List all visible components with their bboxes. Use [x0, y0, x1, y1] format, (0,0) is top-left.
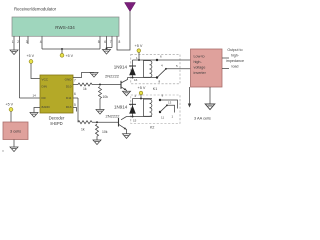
- svg-text:high-: high-: [231, 53, 240, 57]
- svg-text:Receiver/demodulator: Receiver/demodulator: [14, 7, 57, 12]
- svg-text:1N914: 1N914: [114, 64, 128, 69]
- svg-text:5: 5: [74, 103, 76, 107]
- svg-text:VCC: VCC: [42, 78, 49, 82]
- svg-text:5: 5: [176, 64, 178, 68]
- svg-text:1: 1: [12, 40, 14, 44]
- svg-text:GND: GND: [65, 78, 73, 82]
- svg-text:8: 8: [119, 40, 121, 44]
- svg-text:9: 9: [162, 94, 164, 98]
- svg-text:13: 13: [168, 101, 172, 105]
- svg-text:K1: K1: [153, 87, 157, 91]
- svg-text:+5 V: +5 V: [27, 54, 35, 58]
- svg-text:6: 6: [104, 40, 106, 44]
- svg-text:4: 4: [161, 63, 163, 67]
- svg-text:16: 16: [134, 78, 138, 82]
- svg-text:high-: high-: [194, 60, 203, 64]
- svg-text:Low-to: Low-to: [194, 54, 205, 58]
- svg-text:8-BPD: 8-BPD: [50, 121, 62, 126]
- svg-text:5: 5: [98, 40, 100, 44]
- svg-text:D10: D10: [66, 85, 72, 89]
- svg-text:11: 11: [161, 116, 164, 120]
- svg-text:3: 3: [26, 40, 28, 44]
- svg-text:3 AA cells: 3 AA cells: [194, 115, 211, 120]
- svg-text:+5 V: +5 V: [66, 54, 74, 58]
- svg-text:K2: K2: [150, 126, 154, 130]
- svg-text:1: 1: [172, 115, 174, 119]
- svg-text:+5 V: +5 V: [6, 102, 14, 106]
- svg-text:1k: 1k: [81, 127, 85, 131]
- svg-text:2N2222: 2N2222: [105, 73, 120, 78]
- svg-text:10k: 10k: [102, 130, 108, 134]
- svg-text:10k: 10k: [103, 95, 109, 99]
- svg-text:8: 8: [159, 80, 161, 84]
- svg-text:+5 V: +5 V: [138, 86, 146, 90]
- svg-text:3 cells: 3 cells: [10, 129, 21, 134]
- svg-text:load: load: [232, 64, 239, 68]
- svg-text:Decoder: Decoder: [49, 115, 65, 120]
- svg-text:1: 1: [136, 56, 138, 60]
- svg-text:DIN: DIN: [42, 85, 47, 89]
- svg-text:2: 2: [17, 40, 19, 44]
- svg-text:D11: D11: [66, 96, 72, 100]
- svg-text:7: 7: [110, 40, 112, 44]
- svg-text:7: 7: [74, 79, 76, 83]
- svg-text:impedance: impedance: [226, 59, 244, 63]
- svg-text:D13: D13: [66, 105, 72, 109]
- svg-text:6: 6: [74, 92, 76, 96]
- svg-text:15: 15: [133, 118, 137, 122]
- svg-text:6: 6: [160, 55, 162, 59]
- svg-text:4: 4: [40, 40, 42, 44]
- svg-text:1N914: 1N914: [114, 104, 128, 109]
- svg-text:14: 14: [33, 94, 37, 98]
- svg-text:2N2222: 2N2222: [106, 113, 121, 118]
- svg-text:1k: 1k: [83, 87, 87, 91]
- svg-text:2: 2: [135, 94, 137, 98]
- svg-text:voltage: voltage: [194, 65, 206, 69]
- svg-text:8ADD: 8ADD: [42, 105, 51, 109]
- svg-text:inverter: inverter: [194, 71, 207, 75]
- svg-text:D0: D0: [42, 96, 46, 100]
- svg-text:+5 V: +5 V: [135, 44, 143, 48]
- svg-text:RWS-434: RWS-434: [55, 25, 75, 30]
- svg-text:Output to: Output to: [227, 48, 242, 52]
